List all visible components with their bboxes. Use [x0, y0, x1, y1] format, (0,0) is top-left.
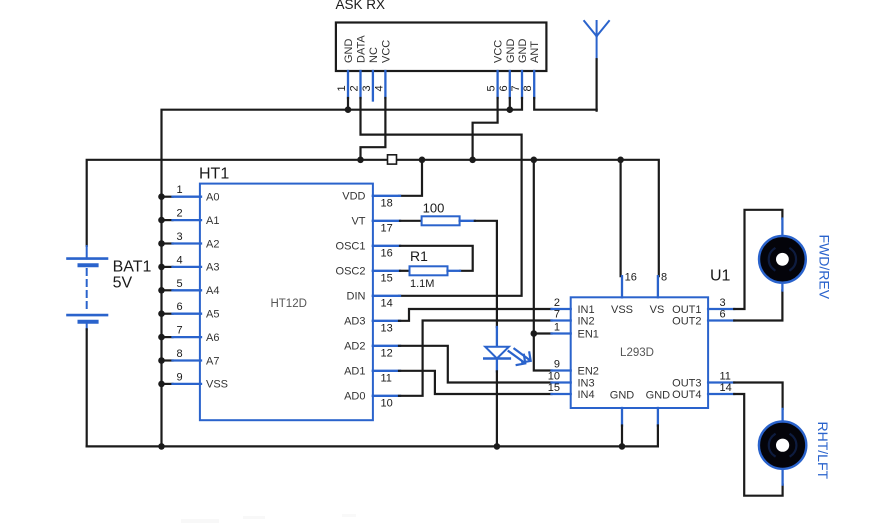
svg-text:RHT/LFT: RHT/LFT	[815, 422, 831, 480]
HT1 pin 4 A3 wire	[162, 266, 173, 268]
wire pin5 VCC to VDD rail	[473, 98, 498, 159]
wire OUT1 to motor M1 top	[734, 210, 782, 309]
U1 pin 4 GND stub bottom left	[621, 408, 623, 426]
junction VDD18-rail	[419, 157, 426, 164]
HT1 pin 1 A0 wire	[162, 196, 173, 198]
wire antenna mast	[595, 59, 597, 110]
resistor 100 right lead	[460, 220, 475, 222]
junction bus pin 2	[158, 217, 165, 224]
HT1 pin 4 stub	[173, 266, 202, 268]
wire OSC2 to R1	[400, 270, 410, 272]
wire VDD rail	[87, 160, 659, 276]
IC U1 body	[571, 297, 708, 408]
junction bus pin 8	[158, 357, 165, 364]
motor M1 top lead	[781, 219, 783, 237]
HT1 pin 7 A6 wire	[162, 336, 173, 338]
svg-text:EN1: EN1	[578, 328, 599, 340]
svg-text:2: 2	[176, 208, 182, 220]
HT1 pin 16 OSC1 stub	[373, 245, 400, 247]
U1 pin 2 IN1 stub	[552, 308, 571, 310]
svg-text:1: 1	[554, 322, 560, 334]
IC HT1 body	[200, 184, 373, 421]
svg-text:7: 7	[510, 85, 522, 91]
motor M2 top lead	[781, 409, 783, 422]
wire EN1	[534, 332, 552, 334]
HT1 pin 17 VT stub	[373, 220, 400, 222]
wire AD1 to IN4	[399, 371, 552, 394]
junction pin4-VDD rail	[357, 157, 364, 164]
HT1 pin 12 AD2 stub	[373, 345, 400, 347]
U1 pin 3 OUT1 stub	[708, 308, 734, 310]
wire GND rail and address bus	[162, 98, 523, 446]
wire battery negative to bottom rail	[86, 329, 88, 446]
svg-text:GND: GND	[646, 390, 671, 402]
wire OSC1 loop to R1 right lead	[400, 246, 473, 271]
junction bus pin 1	[158, 193, 165, 200]
faint cropped caption fragment middle	[243, 516, 265, 519]
HT1 pin 8 stub	[173, 359, 202, 361]
svg-text:4: 4	[373, 85, 385, 91]
U1 pin 9 EN2 stub	[552, 369, 571, 371]
junction pin5-VDD rail	[469, 157, 476, 164]
HT1 pin 9 VSS wire	[162, 383, 173, 385]
HT1 pin 5 stub	[173, 289, 202, 291]
U1 pin 1 EN1 stub	[552, 332, 571, 334]
HT1 pin 13 AD3 stub	[373, 320, 400, 322]
svg-text:VCC: VCC	[381, 40, 393, 63]
HT1 pin 18 VDD stub	[373, 195, 400, 197]
svg-text:13: 13	[381, 322, 393, 334]
faint cropped caption fragment left	[181, 519, 219, 523]
junction bus pin 5	[158, 287, 165, 294]
HT1 pin 2 stub	[173, 219, 202, 221]
antenna AE1	[584, 21, 609, 59]
LED D1 cathode bar	[484, 357, 510, 359]
HT1 pin 8 A7 wire	[162, 359, 173, 361]
svg-text:GND: GND	[505, 39, 517, 64]
svg-text:A4: A4	[206, 285, 219, 297]
svg-text:9: 9	[176, 371, 182, 383]
svg-text:8: 8	[522, 85, 534, 91]
wire pin6 GND drop	[509, 98, 511, 111]
wire AD2 to IN3	[399, 346, 552, 383]
HT1 pin 14 DIN stub	[373, 295, 400, 297]
svg-text:5: 5	[486, 85, 498, 91]
U1 pin 11 OUT3 stub	[708, 381, 734, 383]
svg-text:U1: U1	[710, 268, 731, 285]
junction bus pin 4	[158, 264, 165, 271]
battery BAT1	[68, 246, 108, 329]
svg-text:18: 18	[381, 197, 393, 209]
svg-text:GND: GND	[343, 39, 355, 64]
svg-text:A7: A7	[206, 355, 219, 367]
svg-text:R1: R1	[410, 248, 428, 264]
LED light arrow 2	[514, 349, 529, 360]
svg-text:A3: A3	[206, 262, 219, 274]
wire VSS pin16 drop	[619, 160, 621, 276]
resistor 100 body	[422, 216, 460, 225]
svg-text:11: 11	[720, 371, 731, 383]
svg-text:VS: VS	[650, 304, 665, 316]
motor M1 body	[759, 236, 806, 283]
wire GND left drop	[621, 426, 623, 448]
svg-text:3: 3	[176, 231, 182, 243]
wire VDD pin18 drop	[399, 160, 422, 196]
U1 pin 10 IN3 stub	[552, 381, 571, 383]
wire AD3 to IN1	[399, 309, 552, 321]
HT1 pin 3 stub	[173, 242, 202, 244]
wire AD0 to IN2	[399, 321, 552, 396]
svg-text:VSS: VSS	[206, 379, 228, 391]
junction LED-ground rail	[494, 443, 501, 450]
pin 7 stub	[521, 71, 523, 98]
svg-text:4: 4	[176, 254, 182, 266]
svg-text:A2: A2	[206, 238, 219, 250]
svg-text:3: 3	[720, 297, 726, 309]
svg-text:EN2: EN2	[578, 365, 599, 377]
svg-text:16: 16	[381, 247, 393, 259]
wire resistor 100 to LED anode	[475, 221, 497, 327]
junction pin1-GND rail	[345, 106, 352, 113]
svg-text:6: 6	[720, 309, 726, 321]
svg-text:AD2: AD2	[344, 341, 365, 353]
motor M1 bottom lead	[781, 283, 783, 291]
svg-text:AD0: AD0	[344, 391, 365, 403]
svg-text:3: 3	[361, 85, 373, 91]
svg-text:ANT: ANT	[529, 41, 541, 63]
motor M2 shaft hole	[776, 439, 789, 452]
svg-text:8: 8	[176, 348, 182, 360]
svg-text:A1: A1	[206, 215, 219, 227]
HT1 pin 11 AD1 stub	[373, 370, 400, 372]
svg-text:ASK RX: ASK RX	[336, 0, 386, 12]
wire OUT2 to motor M1 bottom	[734, 291, 782, 321]
wire pin4 VCC to VDD rail	[361, 98, 386, 159]
HT1 pin 2 A1 wire	[162, 219, 173, 221]
svg-text:IN1: IN1	[578, 304, 595, 316]
svg-text:A0: A0	[206, 192, 219, 204]
svg-text:VT: VT	[351, 216, 365, 228]
svg-text:AD1: AD1	[344, 366, 365, 378]
pin 2 stub	[359, 71, 361, 98]
svg-text:16: 16	[625, 272, 637, 284]
U1 pin 7 IN2 stub	[552, 319, 571, 321]
wire VT to resistor 100	[400, 220, 422, 222]
U1 pin 6 OUT2 stub	[708, 319, 734, 321]
svg-text:OUT4: OUT4	[672, 389, 701, 401]
HT1 pin 9 stub	[173, 383, 202, 385]
motor M2 bottom lead	[781, 469, 783, 485]
svg-text:OUT3: OUT3	[672, 377, 701, 389]
svg-text:VCC: VCC	[493, 40, 505, 63]
svg-text:VDD: VDD	[342, 191, 365, 203]
LED D1 cathode lead	[496, 359, 498, 372]
svg-text:VSS: VSS	[611, 304, 633, 316]
pin 8 stub	[533, 71, 535, 98]
svg-text:DATA: DATA	[356, 35, 368, 63]
wire LED cathode to ground rail	[496, 371, 498, 446]
svg-text:1.1M: 1.1M	[410, 278, 434, 290]
HT1 pin 1 stub	[173, 196, 202, 198]
svg-text:15: 15	[548, 382, 560, 394]
resistor R1 right lead	[448, 270, 461, 272]
wire DATA to DIN	[361, 98, 522, 296]
svg-text:A6: A6	[206, 332, 219, 344]
module ASK RX body	[336, 23, 547, 72]
U1 pin 15 IN4 stub	[552, 393, 571, 395]
HT1 pin 10 AD0 stub	[373, 395, 400, 397]
svg-text:1: 1	[336, 85, 348, 91]
svg-text:OSC1: OSC1	[336, 241, 366, 253]
motor M2 brush arc right	[791, 434, 797, 456]
U1 pin 8 VS stub	[657, 276, 659, 297]
svg-text:14: 14	[381, 297, 393, 309]
resistor R1 body	[410, 266, 448, 275]
svg-text:1: 1	[176, 184, 182, 196]
svg-text:9: 9	[554, 359, 560, 371]
node marker (unplaced origin square)	[388, 155, 397, 164]
junction pin6-GND rail	[507, 106, 514, 113]
svg-text:OUT2: OUT2	[672, 315, 701, 327]
pin 4 stub	[384, 71, 386, 98]
svg-text:HT12D: HT12D	[270, 298, 306, 310]
wire bottom ground rail	[87, 426, 658, 447]
svg-text:HT1: HT1	[199, 166, 229, 183]
svg-text:IN2: IN2	[578, 315, 595, 327]
svg-text:12: 12	[381, 347, 393, 359]
junction bus pin 9	[158, 381, 165, 388]
U1 pin 16 VSS stub	[621, 276, 623, 297]
svg-text:GND: GND	[517, 39, 529, 64]
svg-text:OUT1: OUT1	[672, 304, 701, 316]
HT1 pin 5 A4 wire	[162, 289, 173, 291]
HT1 pin 7 stub	[173, 336, 202, 338]
junction EN1	[531, 330, 538, 337]
svg-text:2: 2	[554, 297, 560, 309]
svg-text:GND: GND	[610, 390, 635, 402]
svg-text:11: 11	[381, 372, 392, 384]
svg-text:14: 14	[720, 382, 732, 394]
svg-text:AD3: AD3	[344, 316, 365, 328]
wire LED anode segment	[496, 327, 498, 347]
junction bus pin 6	[158, 310, 165, 317]
junction VSS16-rail	[617, 157, 624, 164]
junction bus pin 3	[158, 240, 165, 247]
junction bus-bottom rail	[158, 443, 165, 450]
U1 pin 14 OUT4 stub	[708, 393, 734, 395]
svg-text:OSC2: OSC2	[336, 266, 366, 278]
junction bus pin 7	[158, 334, 165, 341]
svg-text:IN4: IN4	[578, 389, 595, 401]
motor M2 brush arc left	[769, 434, 775, 456]
svg-text:15: 15	[381, 272, 393, 284]
pin 5 stub	[496, 71, 498, 98]
svg-text:6: 6	[176, 301, 182, 313]
junction EN-rail	[531, 157, 538, 164]
svg-text:100: 100	[423, 201, 445, 216]
svg-text:7: 7	[554, 309, 560, 321]
HT1 pin 6 A5 wire	[162, 313, 173, 315]
svg-text:A5: A5	[206, 309, 219, 321]
pin 1 stub	[347, 71, 349, 98]
pin 3 stub NC	[372, 71, 374, 101]
LED D1 triangle	[485, 347, 509, 359]
faint cropped caption fragment right	[342, 514, 356, 517]
svg-text:IN3: IN3	[578, 377, 595, 389]
svg-text:10: 10	[548, 371, 560, 383]
wire EN1 EN2 supply drop	[534, 160, 552, 371]
HT1 pin 15 OSC2 stub	[373, 270, 400, 272]
svg-text:5: 5	[176, 278, 182, 290]
svg-text:6: 6	[498, 85, 510, 91]
svg-text:5V: 5V	[113, 275, 133, 292]
U1 pin 13 GND stub bottom right	[657, 408, 659, 426]
HT1 pin 6 stub	[173, 313, 202, 315]
motor M1 shaft hole	[776, 253, 789, 266]
svg-text:BAT1: BAT1	[113, 259, 152, 276]
wire OUT4 to motor M2 bottom	[734, 394, 782, 496]
svg-text:17: 17	[381, 222, 393, 234]
pin 6 stub	[509, 71, 511, 98]
motor M1 brush arc left	[769, 249, 775, 271]
svg-text:7: 7	[176, 325, 182, 337]
svg-text:8: 8	[661, 272, 667, 284]
svg-text:10: 10	[381, 397, 393, 409]
svg-text:L293D: L293D	[620, 347, 654, 359]
motor M2 body	[759, 422, 806, 469]
svg-text:2: 2	[349, 85, 361, 91]
LED light arrow 1	[509, 351, 524, 362]
svg-text:FWD/REV: FWD/REV	[817, 235, 833, 300]
junction GND-bottom rail	[619, 443, 626, 450]
motor M1 brush arc right	[790, 249, 796, 271]
wire OUT3 to motor M2 top	[734, 383, 782, 409]
wire ANT to antenna	[534, 98, 596, 110]
svg-text:NC: NC	[368, 47, 380, 63]
svg-text:DIN: DIN	[347, 291, 366, 303]
wire pin1 GND drop	[347, 98, 349, 111]
HT1 pin 3 A2 wire	[162, 242, 173, 244]
